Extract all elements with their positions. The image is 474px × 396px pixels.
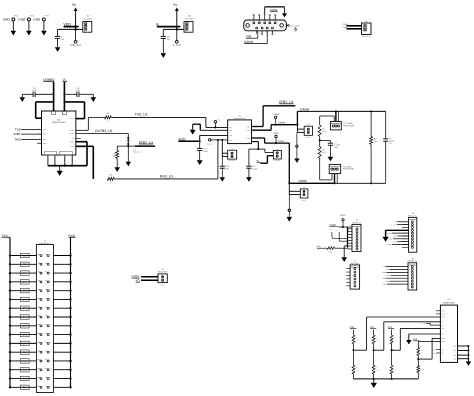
svg-text:GPO3: GPO3 <box>442 338 446 340</box>
svg-text:PJ-102AH: PJ-102AH <box>84 17 93 20</box>
svg-text:GND: GND <box>229 130 232 132</box>
svg-text:INT: INT <box>442 349 444 351</box>
svg-text:TRM ON=1,2: TRM ON=1,2 <box>133 151 142 153</box>
svg-text:CANH: CANH <box>278 121 285 124</box>
svg-text:SN65HVDA540: SN65HVDA540 <box>234 117 246 120</box>
svg-text:1.0k: 1.0k <box>423 323 426 325</box>
svg-text:SHUNT: SHUNT <box>302 200 307 202</box>
svg-text:NC: NC <box>72 138 74 140</box>
svg-text:VDD: VDD <box>63 22 71 26</box>
svg-text:PB: PB <box>442 353 444 355</box>
svg-text:J15: J15 <box>365 20 368 23</box>
svg-text:GND: GND <box>453 355 456 357</box>
svg-text:G11: G11 <box>23 360 28 363</box>
svg-text:J2: J2 <box>162 268 164 271</box>
svg-text:46.4: 46.4 <box>322 151 325 154</box>
svg-text:G12: G12 <box>23 369 28 372</box>
svg-text:GND: GND <box>453 346 456 348</box>
svg-text:GND: GND <box>453 350 456 352</box>
svg-text:GP43: GP43 <box>442 314 446 316</box>
svg-text:46.4: 46.4 <box>322 130 325 133</box>
svg-text:GP8: GP8 <box>22 333 27 336</box>
svg-text:OUTB2: OUTB2 <box>70 133 75 135</box>
svg-text:49.9: 49.9 <box>113 154 116 157</box>
svg-text:GND: GND <box>3 18 11 22</box>
svg-text:560: 560 <box>226 168 229 171</box>
svg-text:TXD: TXD <box>43 129 46 131</box>
svg-text:G10: G10 <box>23 351 28 354</box>
svg-text:G13: G13 <box>23 377 28 380</box>
svg-text:OPEN: OPEN <box>328 251 332 253</box>
svg-text:R6: R6 <box>322 127 324 130</box>
svg-text:BRG-09-CL: BRG-09-CL <box>408 260 417 263</box>
svg-text:TXD: TXD <box>229 127 232 129</box>
svg-text:CANL: CANL <box>247 138 251 140</box>
svg-text:VSB: VSB <box>442 328 445 330</box>
svg-text:OUTB1: OUTB1 <box>70 130 75 132</box>
svg-text:G14: G14 <box>23 386 28 389</box>
svg-text:GND: GND <box>442 317 445 319</box>
svg-text:PROGRAM: PROGRAM <box>229 160 237 162</box>
svg-text:R: R <box>376 367 377 369</box>
svg-text:CANH: CANH <box>300 107 310 111</box>
svg-text:CANH: CANH <box>246 130 250 132</box>
svg-text:RXD: RXD <box>43 139 46 141</box>
svg-text:OUTA: OUTA <box>43 143 47 145</box>
svg-text:CREF: CREF <box>340 214 346 217</box>
svg-text:TXD: TXD <box>15 128 21 132</box>
svg-text:1.0k: 1.0k <box>376 370 379 372</box>
svg-text:GP4: GP4 <box>22 298 27 301</box>
svg-text:R5: R5 <box>114 152 116 155</box>
svg-text:4.7k: 4.7k <box>376 340 379 342</box>
svg-text:SRV-05-CL: SRV-05-CL <box>352 221 361 224</box>
svg-text:4.7k: 4.7k <box>356 340 359 342</box>
svg-text:PJ-102AH: PJ-102AH <box>185 17 194 20</box>
svg-text:GP9: GP9 <box>22 342 27 345</box>
svg-text:TP16: TP16 <box>44 15 49 18</box>
svg-text:CANL: CANL <box>70 146 74 148</box>
svg-text:SN65HVDA540: SN65HVDA540 <box>52 121 65 124</box>
svg-text:R: R <box>421 349 422 351</box>
svg-text:CLK: CLK <box>442 325 445 327</box>
svg-text:GP7: GP7 <box>22 325 27 328</box>
svg-text:GND-CGND: GND-CGND <box>290 24 300 27</box>
svg-text:4.7k: 4.7k <box>394 340 397 342</box>
svg-text:R: R <box>394 337 395 339</box>
svg-text:VDD: VDD <box>229 135 232 137</box>
svg-text:R: R <box>356 337 357 339</box>
svg-text:RXD: RXD <box>22 263 27 266</box>
svg-text:PRESSURE: PRESSURE <box>343 124 355 127</box>
svg-text:PRESSURE: PRESSURE <box>343 168 355 171</box>
svg-text:CANL: CANL <box>273 132 280 135</box>
svg-text:GP12: GP12 <box>442 311 446 313</box>
svg-text:PROGRAM: PROGRAM <box>274 160 282 162</box>
svg-text:CANL: CANL <box>343 26 348 29</box>
svg-text:RXD_U1: RXD_U1 <box>160 174 173 178</box>
svg-text:SN65HVS880: SN65HVS880 <box>443 301 455 304</box>
svg-text:0: 0 <box>107 120 108 123</box>
svg-text:EN: EN <box>442 334 444 336</box>
svg-text:R: R <box>394 367 395 369</box>
svg-text:TXD_U1: TXD_U1 <box>135 113 148 117</box>
svg-text:GND: GND <box>18 18 26 22</box>
svg-text:Vi: Vi <box>156 22 159 26</box>
svg-text:TXD: TXD <box>22 254 27 257</box>
svg-text:PROGRAM: PROGRAM <box>158 271 168 274</box>
svg-text:GP3: GP3 <box>22 290 27 293</box>
svg-text:R: R <box>356 367 357 369</box>
svg-text:RXD: RXD <box>15 138 21 142</box>
svg-text:CANH: CANH <box>70 141 74 143</box>
svg-text:GND_OUT: GND_OUT <box>70 44 82 47</box>
svg-text:CANH: CANH <box>343 23 349 26</box>
svg-text:SHUNT: SHUNT <box>306 137 311 139</box>
svg-text:60.4: 60.4 <box>374 140 378 143</box>
svg-text:Vi_OUT: Vi_OUT <box>173 44 182 47</box>
svg-text:STBY: STBY <box>43 134 47 136</box>
svg-text:Vio: Vio <box>248 141 250 143</box>
svg-text:4.7k: 4.7k <box>421 352 424 354</box>
svg-text:R8: R8 <box>322 148 324 151</box>
svg-text:OUTB2_U2: OUTB2_U2 <box>95 129 113 133</box>
svg-text:RXD: RXD <box>229 140 232 142</box>
svg-text:STBY: STBY <box>247 126 251 128</box>
svg-text:R12: R12 <box>329 245 332 247</box>
svg-text:STBY: STBY <box>13 132 21 136</box>
svg-text:0: 0 <box>110 181 111 184</box>
svg-text:TSM-108-01-T: TSM-108-01-T <box>39 242 52 245</box>
svg-text:GP2: GP2 <box>22 281 27 284</box>
svg-text:GPO1: GPO1 <box>442 341 446 343</box>
svg-text:GND: GND <box>453 358 456 360</box>
svg-text:PB: PB <box>433 353 435 355</box>
svg-text:VIN: VIN <box>442 322 444 324</box>
svg-text:GP5: GP5 <box>22 307 27 310</box>
svg-text:GP1: GP1 <box>22 272 27 275</box>
svg-text:INT: INT <box>433 349 435 351</box>
svg-text:SRV-05-CL: SRV-05-CL <box>350 262 359 265</box>
svg-text:J370: J370 <box>133 149 136 151</box>
svg-text:GP6: GP6 <box>22 316 27 319</box>
svg-text:SHUNT: SHUNT <box>160 284 165 286</box>
svg-text:1.0k: 1.0k <box>356 370 359 372</box>
svg-text:BRG-10-CL: BRG-10-CL <box>408 214 417 217</box>
svg-text:R: R <box>376 337 377 339</box>
svg-text:CANH: CANH <box>273 113 280 116</box>
svg-text:CANL: CANL <box>278 140 285 143</box>
svg-text:1.0k: 1.0k <box>421 369 424 371</box>
svg-text:R2: R2 <box>374 138 376 141</box>
svg-text:CANL: CANL <box>299 179 308 183</box>
svg-text:1.0k: 1.0k <box>394 370 397 372</box>
svg-text:GND: GND <box>33 18 41 22</box>
